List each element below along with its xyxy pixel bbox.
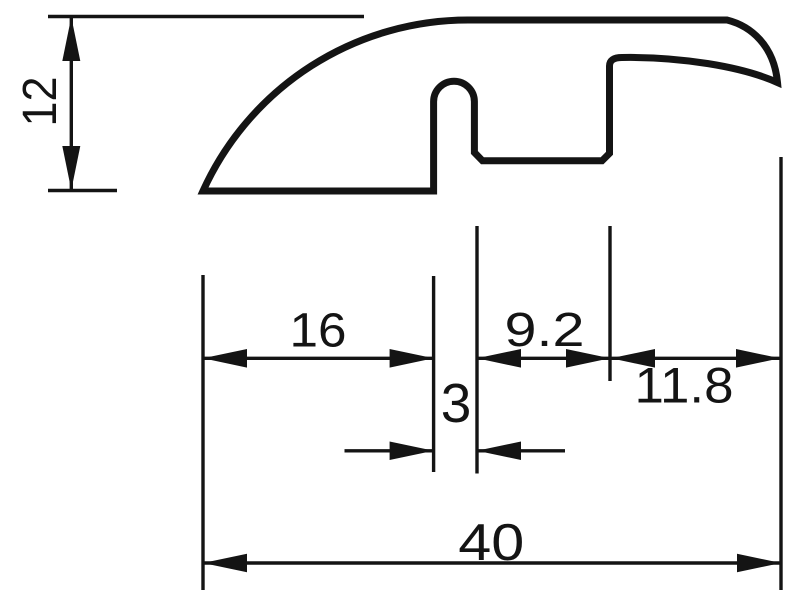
extension line slot-left (x=433.6) [432,276,435,472]
svg-text:40: 40 [458,514,524,572]
arrowhead 9.2 right [566,349,610,368]
extension line bottom-left (for 12) [48,189,117,192]
arrowhead 16 right [390,349,434,368]
arrowhead 16 left [203,349,247,368]
arrowhead 40 right [737,554,781,573]
arrowhead 3 right (points left) [477,442,521,461]
dimension line 11.8 [611,357,780,360]
extension line top (for 12) [48,15,364,18]
svg-text:3: 3 [441,372,472,434]
svg-text:12: 12 [14,77,67,127]
arrowhead 40 left [203,554,247,573]
dimension line 40 [203,561,781,564]
profile outline (molding cross-section) [203,20,778,191]
extension line left (x=203) [201,275,204,590]
arrowhead 3 left (points right) [390,442,434,461]
arrowhead 11.8 right [736,349,780,368]
dimension 3 left tail [345,449,434,452]
svg-text:9.2: 9.2 [505,304,585,357]
svg-text:16: 16 [290,305,347,358]
dimension line 12 (vertical) [70,17,73,190]
arrowhead 12 down [62,146,80,190]
dimension 3 right tail [477,449,565,452]
dimension line 16 [203,357,434,360]
arrowhead 12 up [62,17,80,61]
extension line slot-right (x=477) [475,226,478,474]
svg-text:11.8: 11.8 [635,358,734,414]
extension line right (x=781) [779,157,782,590]
extension line step (x=610) [608,226,611,381]
dimension line 9.2 [477,357,610,360]
arrowhead 11.8 left [611,349,655,368]
arrowhead 9.2 left [477,349,521,368]
